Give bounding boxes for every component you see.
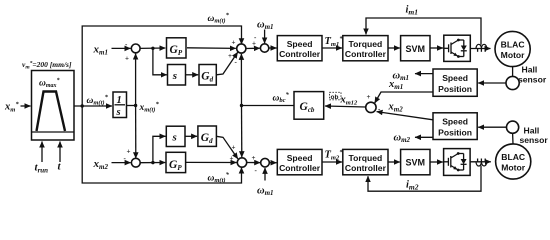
wire inverter to motor top xyxy=(470,48,490,50)
svg-text:Position: Position xyxy=(438,128,472,138)
wire SVM to inverter bottom xyxy=(430,161,443,163)
block G_P top xyxy=(167,38,187,58)
block inverter bottom xyxy=(444,149,471,176)
wire correction down to bottom velocity summer xyxy=(241,106,243,158)
wire x_m1 into top position summer xyxy=(112,47,131,49)
wire summer to G_P bottom xyxy=(140,162,165,164)
wire t arrow xyxy=(59,142,61,163)
node x_m(t)* tee xyxy=(134,104,137,107)
wire speed summer to Speed Controller bottom xyxy=(269,162,276,164)
svg-text:ωbc*: ωbc* xyxy=(273,92,290,105)
svg-text:ωm(t)*: ωm(t)* xyxy=(87,94,109,107)
svg-text:SVM: SVM xyxy=(406,44,426,54)
block Speed Controller bottom xyxy=(277,149,322,174)
svg-text:t: t xyxy=(58,161,62,173)
wire inverter to motor bottom xyxy=(470,161,491,163)
svg-text:+: + xyxy=(252,154,256,162)
hall sensor bottom xyxy=(506,121,518,133)
svg-text:+: + xyxy=(230,155,234,163)
svg-text:Speed: Speed xyxy=(442,73,468,83)
svg-text:ωmax*: ωmax* xyxy=(39,77,61,89)
node correction junction xyxy=(240,104,243,107)
block SVM top xyxy=(401,36,430,61)
svg-text:ob: ob xyxy=(331,94,339,101)
wire hall to speed position top xyxy=(478,82,506,84)
wire G_cb output to correction node xyxy=(242,105,295,107)
wire velocity summer to speed summer bottom xyxy=(247,162,261,164)
svg-text:Tm1*: Tm1* xyxy=(325,36,344,49)
summing junction sync xyxy=(366,102,376,112)
node branch top xyxy=(151,47,154,50)
svg-text:+: + xyxy=(228,52,232,60)
summing junction top position xyxy=(131,44,140,53)
svg-text:-: - xyxy=(254,34,257,42)
svg-text:ωm2: ωm2 xyxy=(394,133,411,145)
summing junction bottom position xyxy=(131,158,140,167)
svg-text:+: + xyxy=(232,39,236,47)
svg-text:xm2: xm2 xyxy=(93,158,109,171)
svg-text:Speed: Speed xyxy=(442,117,468,127)
svg-text:+: + xyxy=(127,148,131,156)
svg-text:-: - xyxy=(124,155,127,163)
svg-text:ωm(t)*: ωm(t)* xyxy=(208,12,230,25)
summing junction bottom velocity xyxy=(237,158,246,167)
svg-text:+: + xyxy=(232,144,236,152)
svg-text:ωm1: ωm1 xyxy=(393,71,410,83)
svg-text:xm2: xm2 xyxy=(388,102,404,114)
wire Speed Controller to Torqued Controller bottom xyxy=(322,161,342,163)
summing junction top speed xyxy=(260,44,268,52)
svg-text:-: - xyxy=(235,58,238,66)
svg-text:Torqued: Torqued xyxy=(349,153,383,163)
svg-text:xm*: xm* xyxy=(4,101,19,114)
wire omega_m1 up into speed summer bottom xyxy=(264,168,266,181)
wire x_m2 into bottom position summer xyxy=(112,162,131,164)
wire feedforward loop top xyxy=(82,26,241,106)
wire x_m2 to sync summer xyxy=(377,112,433,120)
wire t_run arrow xyxy=(41,142,43,163)
svg-text:sensor: sensor xyxy=(520,135,549,145)
svg-text:Motor: Motor xyxy=(501,163,526,173)
svg-text:im1: im1 xyxy=(406,5,419,17)
svg-text:s: s xyxy=(116,107,121,118)
svg-text:Position: Position xyxy=(438,84,472,94)
wire i_m1 sense xyxy=(366,18,481,45)
svg-text:ωm(t)*: ωm(t)* xyxy=(208,172,230,185)
block SVM bottom xyxy=(401,149,430,174)
wire i_m2 sense xyxy=(368,166,481,192)
block Torqued Controller bottom xyxy=(343,149,388,174)
block G_P bottom xyxy=(166,152,186,172)
svg-text:trun: trun xyxy=(35,162,49,175)
wire omega_m1 output arrow xyxy=(415,73,433,75)
svg-text:Controller: Controller xyxy=(345,163,387,173)
svg-text:Hall: Hall xyxy=(524,126,540,136)
wire position reference down to bottom summer xyxy=(135,106,137,159)
wire motor to hall top xyxy=(512,67,514,77)
svg-text:Tm2*: Tm2* xyxy=(325,149,344,162)
wire s to G_d top xyxy=(186,74,199,76)
svg-text:s: s xyxy=(172,132,177,144)
svg-text:xm12: xm12 xyxy=(340,95,359,107)
svg-text:Gd: Gd xyxy=(201,70,213,83)
trapezoid baseline xyxy=(32,131,75,133)
svg-text:+: + xyxy=(125,55,129,63)
summing junction bottom speed xyxy=(261,158,270,167)
wire G_P to velocity summer bottom xyxy=(186,161,237,163)
wire motor to hall bottom xyxy=(512,133,514,144)
svg-text:vm*=200 [mm/s]: vm*=200 [mm/s] xyxy=(22,60,72,71)
IGBT bottom inverter xyxy=(444,161,449,163)
svg-text:im2: im2 xyxy=(406,180,419,192)
block Torqued Controller top xyxy=(343,36,388,61)
wire summer to G_P top xyxy=(140,47,165,49)
svg-text:BLAC: BLAC xyxy=(501,152,525,162)
svg-text:s: s xyxy=(172,70,177,82)
wire G_d diagonal to velocity summer bottom xyxy=(216,136,237,159)
svg-text:Speed: Speed xyxy=(287,153,313,163)
svg-text:Controller: Controller xyxy=(345,49,387,59)
svg-text:ωm1: ωm1 xyxy=(257,20,274,32)
block Speed Position top xyxy=(433,69,477,96)
inductor top xyxy=(476,44,487,48)
wire Speed Controller to Torqued Controller top xyxy=(322,47,342,49)
motor BLAC top xyxy=(495,31,530,66)
wire G_P to velocity summer top xyxy=(187,47,236,50)
block G_cb xyxy=(294,92,324,120)
trapezoid velocity profile xyxy=(37,92,66,132)
wire hall to speed position bottom xyxy=(478,126,506,128)
wire correction up to top velocity summer xyxy=(240,54,242,106)
label ob artifact xyxy=(330,92,342,100)
svg-text:-: - xyxy=(255,167,258,175)
wire generator output to integrator xyxy=(74,105,112,107)
svg-text:Torqued: Torqued xyxy=(349,39,383,49)
wire x_m1 to sync summer xyxy=(375,92,433,103)
svg-text:Motor: Motor xyxy=(501,50,526,60)
wire speed summer to Speed Controller top xyxy=(269,47,277,49)
wire SVM to inverter top xyxy=(430,47,443,49)
inductor bottom xyxy=(476,162,487,166)
svg-text:xm1: xm1 xyxy=(93,44,108,57)
svg-text:BLAC: BLAC xyxy=(501,40,525,50)
node branch bottom xyxy=(151,161,154,164)
svg-text:Hall: Hall xyxy=(522,65,538,75)
block G_d top xyxy=(199,65,216,86)
svg-text:+: + xyxy=(367,93,371,101)
hall sensor top xyxy=(506,76,519,89)
svg-text:xm(t)*: xm(t)* xyxy=(139,101,160,114)
svg-text:ωm1: ωm1 xyxy=(257,186,274,198)
wire G_d diagonal to velocity summer top xyxy=(216,52,237,75)
block s bottom xyxy=(166,126,185,146)
wire Torqued Controller to SVM top xyxy=(388,47,400,49)
svg-text:SVM: SVM xyxy=(406,158,426,168)
wire branch up to s bottom xyxy=(153,136,166,162)
svg-text:Gd: Gd xyxy=(201,132,213,145)
wire omega_m1 down into speed summer xyxy=(264,30,266,44)
svg-text:-: - xyxy=(125,41,128,49)
summing junction top velocity xyxy=(237,44,246,53)
wire branch down to s top xyxy=(153,48,167,75)
velocity profile generator box xyxy=(32,71,75,141)
diode bottom inverter xyxy=(463,154,465,160)
wire x_m* into generator xyxy=(21,105,31,107)
block G_d bottom xyxy=(198,126,217,146)
integrator 1/s box xyxy=(113,92,127,118)
wire position reference up to top summer xyxy=(135,54,137,106)
svg-text:Controller: Controller xyxy=(279,163,321,173)
svg-text:GP: GP xyxy=(169,159,182,172)
motor BLAC bottom xyxy=(496,144,531,179)
block inverter top xyxy=(444,35,471,61)
IGBT top inverter xyxy=(444,47,449,49)
wire velocity summer to speed summer top xyxy=(246,47,260,49)
svg-text:sensor: sensor xyxy=(518,75,547,85)
wire s to G_d bottom xyxy=(185,135,197,137)
block Speed Controller top xyxy=(277,36,322,61)
wire omega_m2 output arrow xyxy=(415,136,433,138)
wire integrator output to tee xyxy=(127,105,136,107)
node junction generator output xyxy=(81,104,84,107)
svg-text:Controller: Controller xyxy=(279,49,321,59)
diode top inverter xyxy=(463,40,465,46)
wire sync summer output x_m12 to G_cb xyxy=(325,106,366,107)
block s top xyxy=(168,65,186,86)
block Speed Position bottom xyxy=(433,113,477,140)
wire Torqued Controller to SVM bottom xyxy=(388,161,400,163)
svg-text:GP: GP xyxy=(170,44,183,57)
svg-text:Speed: Speed xyxy=(287,39,313,49)
wire feedforward loop bottom xyxy=(82,106,241,183)
svg-text:Gcb: Gcb xyxy=(300,101,315,114)
